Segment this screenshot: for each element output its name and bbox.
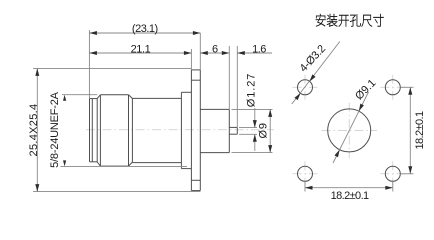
svg-text:21.1: 21.1 (131, 44, 151, 56)
svg-text:5/8-24UNEF-2A: 5/8-24UNEF-2A (49, 91, 61, 168)
svg-text:18.2±0.1: 18.2±0.1 (414, 111, 426, 149)
svg-text:6: 6 (212, 44, 218, 56)
svg-text:(23.1): (23.1) (132, 23, 158, 35)
svg-text:Ø1.27: Ø1.27 (246, 73, 258, 107)
svg-text:1.6: 1.6 (252, 44, 266, 56)
svg-text:18.2±0.1: 18.2±0.1 (331, 190, 369, 202)
svg-text:Ø9: Ø9 (258, 122, 270, 138)
svg-text:25.4X25.4: 25.4X25.4 (28, 104, 40, 157)
